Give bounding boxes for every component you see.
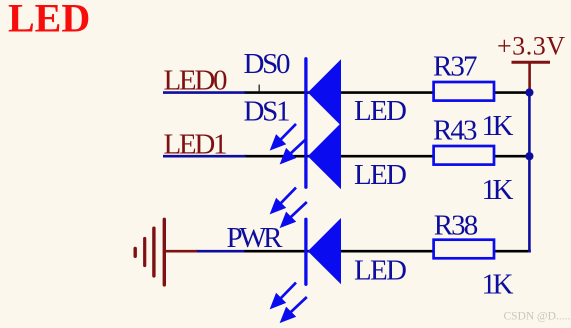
svg-text:LED: LED [354,159,407,191]
svg-text:LED: LED [8,0,90,41]
svg-text:R37: R37 [433,51,478,83]
svg-text:PWR: PWR [227,222,284,254]
svg-text:LED1: LED1 [164,128,228,160]
svg-text:1K: 1K [482,110,514,142]
svg-text:R43: R43 [433,115,478,147]
svg-text:LED: LED [354,95,407,127]
svg-text:LED: LED [354,254,407,286]
svg-text:DS0: DS0 [244,48,291,80]
svg-text:LED0: LED0 [164,64,228,96]
svg-text:1K: 1K [482,174,514,206]
svg-text:R38: R38 [434,209,479,241]
svg-text:CSDN @D.....l: CSDN @D.....l [504,311,571,323]
svg-text:DS1: DS1 [244,96,291,128]
svg-text:1K: 1K [482,268,514,300]
svg-text:+3.3V: +3.3V [497,31,565,60]
